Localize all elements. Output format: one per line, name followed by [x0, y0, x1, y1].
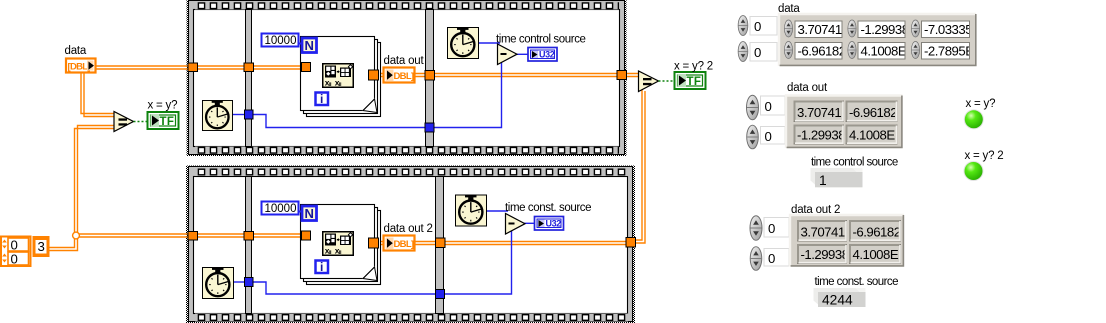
- svg-text:4.1008E-: 4.1008E-: [861, 44, 911, 59]
- data out 2 cell r2c2: [850, 245, 903, 264]
- wire: clock 2 to subtract 1 (blue): [479, 42, 500, 44]
- loop 2 left tunnel: [302, 231, 311, 240]
- data cell spinner r1c3: [911, 20, 919, 37]
- numeric constant 10000 (sequence 2): [262, 202, 303, 216]
- tunnel: sequence 2 right border: [626, 238, 636, 248]
- formula subVI icon 1: [323, 64, 354, 88]
- svg-text:0: 0: [768, 251, 775, 266]
- svg-text:N: N: [305, 38, 314, 53]
- label: data out: [384, 55, 425, 67]
- svg-text:0: 0: [768, 221, 775, 236]
- label: data: [65, 45, 87, 57]
- for loop 1: [301, 37, 381, 117]
- clock 1 (tick count, sequence 1 frame 1): [202, 100, 232, 130]
- data cell value r2c3: [922, 43, 975, 60]
- svg-text:0: 0: [754, 19, 761, 34]
- data out 2 index display row 2: [764, 249, 789, 267]
- label: data out 2: [384, 223, 433, 235]
- flat sequence structure 2 border: [186, 166, 635, 323]
- junction dot: [73, 232, 80, 239]
- tunnel: sequence 2 divider 2: [436, 238, 446, 248]
- wire: equal 2 to TF indicator 2 (green dotted): [659, 80, 675, 82]
- svg-text:DBL]: DBL]: [394, 239, 414, 250]
- tunnel: sequence 1 divider 1: [244, 63, 254, 72]
- label: x = y? (front panel): [966, 98, 996, 110]
- svg-text:-6.96182: -6.96182: [798, 44, 846, 59]
- data out cell r1c2: [846, 101, 897, 122]
- subtract node 2: [506, 214, 526, 235]
- svg-text:-7.03335: -7.03335: [924, 22, 972, 37]
- numeric indicator: time control source value 1: [811, 168, 863, 188]
- svg-text:time const. source: time const. source: [505, 202, 591, 214]
- svg-text:-6.96182: -6.96182: [849, 105, 897, 120]
- svg-text:DBL]: DBL]: [394, 71, 414, 82]
- data cell value r1c2: [858, 21, 909, 38]
- data out 2 array indicator shell: [790, 215, 904, 267]
- data out cell r2c2: [846, 125, 899, 144]
- svg-text:4.1008E-: 4.1008E-: [853, 247, 903, 262]
- tunnel: sequence 2 left border: [188, 232, 198, 241]
- wire: array constant to equal1 y input (orange): [50, 126, 116, 251]
- subtract node 1: [498, 44, 518, 65]
- data array index spinner row 1: [738, 16, 748, 36]
- svg-text:U32: U32: [546, 219, 562, 229]
- label: data out 2 (front panel): [791, 204, 840, 216]
- wire: sequence 2 output up to equal2 y input (orange): [633, 89, 645, 243]
- array constant with element 3: [1, 237, 49, 267]
- wire: tick across frame 2 to frame 3 subtract (blue): [252, 62, 502, 128]
- svg-text:time control source: time control source: [811, 157, 898, 169]
- wire: tick across sequence 2 frame 2 to frame 3 subtract (blue): [252, 231, 512, 294]
- data array control terminal [DBL]: [66, 59, 96, 73]
- U32 indicator terminal (time control source): [528, 48, 557, 62]
- label: time control source: [496, 34, 586, 46]
- svg-text:time control source: time control source: [496, 34, 586, 46]
- data out index spinner row 2: [747, 125, 759, 149]
- clock 2 (tick count, sequence 1 frame 3): [448, 28, 479, 59]
- label: time const. source: [505, 202, 591, 214]
- svg-text:time const. source: time const. source: [815, 276, 899, 288]
- loop iterator i 2: [316, 260, 329, 274]
- data out index spinner row 1: [747, 95, 759, 120]
- sequence 1 frame divider 1: [246, 10, 252, 147]
- label: x = y?: [148, 100, 178, 112]
- svg-text:-6.96182: -6.96182: [853, 225, 901, 240]
- TF indicator terminal 2 (x = y? 2): [675, 72, 706, 89]
- tick tunnel: sequence 1 divider 2 (blue): [425, 123, 434, 132]
- loop 2 right tunnel: [369, 238, 379, 248]
- wire: data control to sequence 1 (orange 2D array): [96, 66, 189, 69]
- svg-text:1: 1: [819, 173, 827, 188]
- loop count N 2: [302, 206, 317, 221]
- wire: loop 1 output to data out and sequence 1 right edge (orange): [354, 74, 640, 77]
- data out 2 cell r2c1: [798, 245, 849, 264]
- wire: data control down to equal1 x input (orange): [81, 73, 115, 117]
- svg-text:x = y? 2: x = y? 2: [965, 150, 1004, 162]
- numeric indicator: time const. source value 4244: [814, 288, 866, 308]
- svg-text:-1.29938: -1.29938: [861, 22, 909, 37]
- data out 2 cell r1c1: [798, 221, 854, 242]
- label: data (front panel): [778, 3, 800, 15]
- data out 2 index display row 1: [764, 218, 789, 238]
- svg-text:i: i: [320, 92, 323, 106]
- svg-text:4244: 4244: [822, 293, 853, 308]
- formula subVI icon 2: [323, 232, 354, 256]
- tick tunnel: sequence 1 divider 1 (blue): [245, 110, 254, 119]
- svg-text:data: data: [65, 45, 87, 57]
- wire: subtract 2 to U32 indicator 2 (blue): [524, 222, 535, 224]
- wire: clock 3 to tick tunnel sequence 2 (blue): [234, 281, 246, 283]
- for loop 2: [301, 205, 381, 285]
- svg-text:0: 0: [11, 238, 18, 253]
- wire: junction to sequence 2 (orange): [75, 234, 190, 237]
- tunnel: sequence 1 right border: [617, 71, 627, 80]
- data out cell r1c1: [794, 101, 850, 122]
- svg-text:x = y? 2: x = y? 2: [674, 61, 713, 73]
- data out array indicator shell: [786, 96, 903, 149]
- data array index display row 2: [750, 43, 777, 62]
- wire: clock 1 to tick tunnel frame1 (blue): [233, 114, 246, 116]
- wire: clock 4 to subtract 2 (blue): [487, 210, 508, 212]
- wire: equal 1 to TF indicator (green dotted): [134, 121, 148, 123]
- numeric constant 10000 (sequence 1): [262, 34, 303, 48]
- svg-text:x = y?: x = y?: [148, 100, 178, 112]
- data cell value r1c3: [922, 21, 973, 38]
- wire: loop 2 output to data out 2 and sequence 2 right edge (orange): [354, 242, 630, 245]
- svg-text:0: 0: [765, 99, 772, 114]
- svg-text:x = y?: x = y?: [966, 98, 996, 110]
- svg-text:4.1008E-: 4.1008E-: [849, 128, 899, 143]
- data array index spinner row 2: [738, 42, 748, 62]
- label: time const. source (front panel): [815, 276, 899, 288]
- svg-text:TF: TF: [160, 116, 175, 128]
- data cell value r2c2: [858, 43, 910, 60]
- label: time control source (front panel): [811, 157, 898, 169]
- svg-text:data out: data out: [384, 55, 425, 67]
- data cell spinner r2c2: [848, 41, 856, 58]
- label: data out (front panel): [787, 82, 828, 94]
- sequence 1 frame divider 2: [426, 10, 434, 147]
- data array index display row 1: [750, 17, 777, 36]
- clock 3 (tick count, sequence 2 frame 1): [203, 268, 234, 299]
- equal node 1: [114, 112, 134, 132]
- svg-text:TF: TF: [687, 76, 702, 88]
- data cell value r2c1: [795, 43, 846, 60]
- data out cell r2c1: [794, 125, 845, 144]
- wire: sequence 1 frame 1 to loop 1 (orange): [197, 66, 323, 69]
- svg-text:data out 2: data out 2: [384, 223, 433, 235]
- wire: subtract 1 to U32 indicator (blue): [516, 53, 528, 55]
- data out 2 cell r1c2: [850, 221, 901, 242]
- svg-text:-2.7895E: -2.7895E: [924, 44, 974, 59]
- LED indicator x = y?: [964, 109, 984, 129]
- svg-text:-1.29938: -1.29938: [797, 128, 845, 143]
- data out 2 index spinner row 2: [750, 247, 762, 271]
- data cell spinner r2c3: [911, 41, 919, 58]
- LED indicator x = y? 2: [964, 161, 984, 181]
- svg-text:N: N: [305, 206, 314, 221]
- svg-text:[DBL]: [DBL]: [68, 62, 91, 73]
- label: x = y? 2 (front panel): [965, 150, 1004, 162]
- flat sequence structure 1 border: [187, 0, 627, 156]
- svg-text:i: i: [320, 260, 323, 274]
- data array control shell: [779, 14, 976, 66]
- sequence 2 frame divider 2: [436, 177, 444, 314]
- svg-text:0: 0: [11, 252, 18, 267]
- wire: sequence 2 frame 1 to loop 2 (orange): [197, 234, 323, 237]
- U32 indicator terminal 2 (time const. source): [535, 217, 564, 231]
- data out index display row 1: [761, 96, 786, 115]
- svg-text:10000: 10000: [265, 35, 297, 47]
- svg-text:data out: data out: [787, 82, 828, 94]
- tick tunnel: sequence 2 divider 1 (blue): [245, 278, 254, 287]
- data cell spinner r1c2: [848, 20, 856, 37]
- TF indicator terminal (x = y?): [148, 112, 179, 129]
- tunnel: sequence 1 left border: [188, 63, 198, 72]
- svg-text:0: 0: [765, 129, 772, 144]
- svg-text:U32: U32: [539, 50, 555, 60]
- equal node 2: [639, 71, 659, 92]
- loop 1 right tunnel: [369, 70, 379, 80]
- tick tunnel: sequence 2 divider 2 (blue): [436, 290, 445, 299]
- data out 2 index spinner row 1: [750, 216, 762, 241]
- sequence 2 frame divider 1: [246, 177, 252, 314]
- data cell value r1c1: [795, 21, 851, 38]
- data out 2 array indicator terminal: [384, 236, 415, 251]
- svg-text:0: 0: [754, 45, 761, 60]
- loop iterator i 1: [316, 92, 329, 106]
- loop 1 left tunnel: [302, 63, 311, 72]
- data out index display row 2: [761, 127, 786, 145]
- tunnel: sequence 2 divider 1: [244, 232, 254, 241]
- clock 4 (tick count, sequence 2 frame 3): [456, 195, 487, 226]
- data cell spinner r2c1: [784, 41, 792, 58]
- svg-text:10000: 10000: [265, 203, 297, 215]
- label: x = y? 2: [674, 61, 713, 73]
- data cell spinner r1c1: [784, 20, 792, 37]
- loop count N 1: [302, 38, 317, 53]
- tunnel: sequence 1 divider 2: [425, 71, 435, 81]
- svg-text:3: 3: [38, 239, 45, 254]
- data out array indicator terminal 1: [384, 68, 415, 83]
- svg-text:-1.29938: -1.29938: [801, 247, 849, 262]
